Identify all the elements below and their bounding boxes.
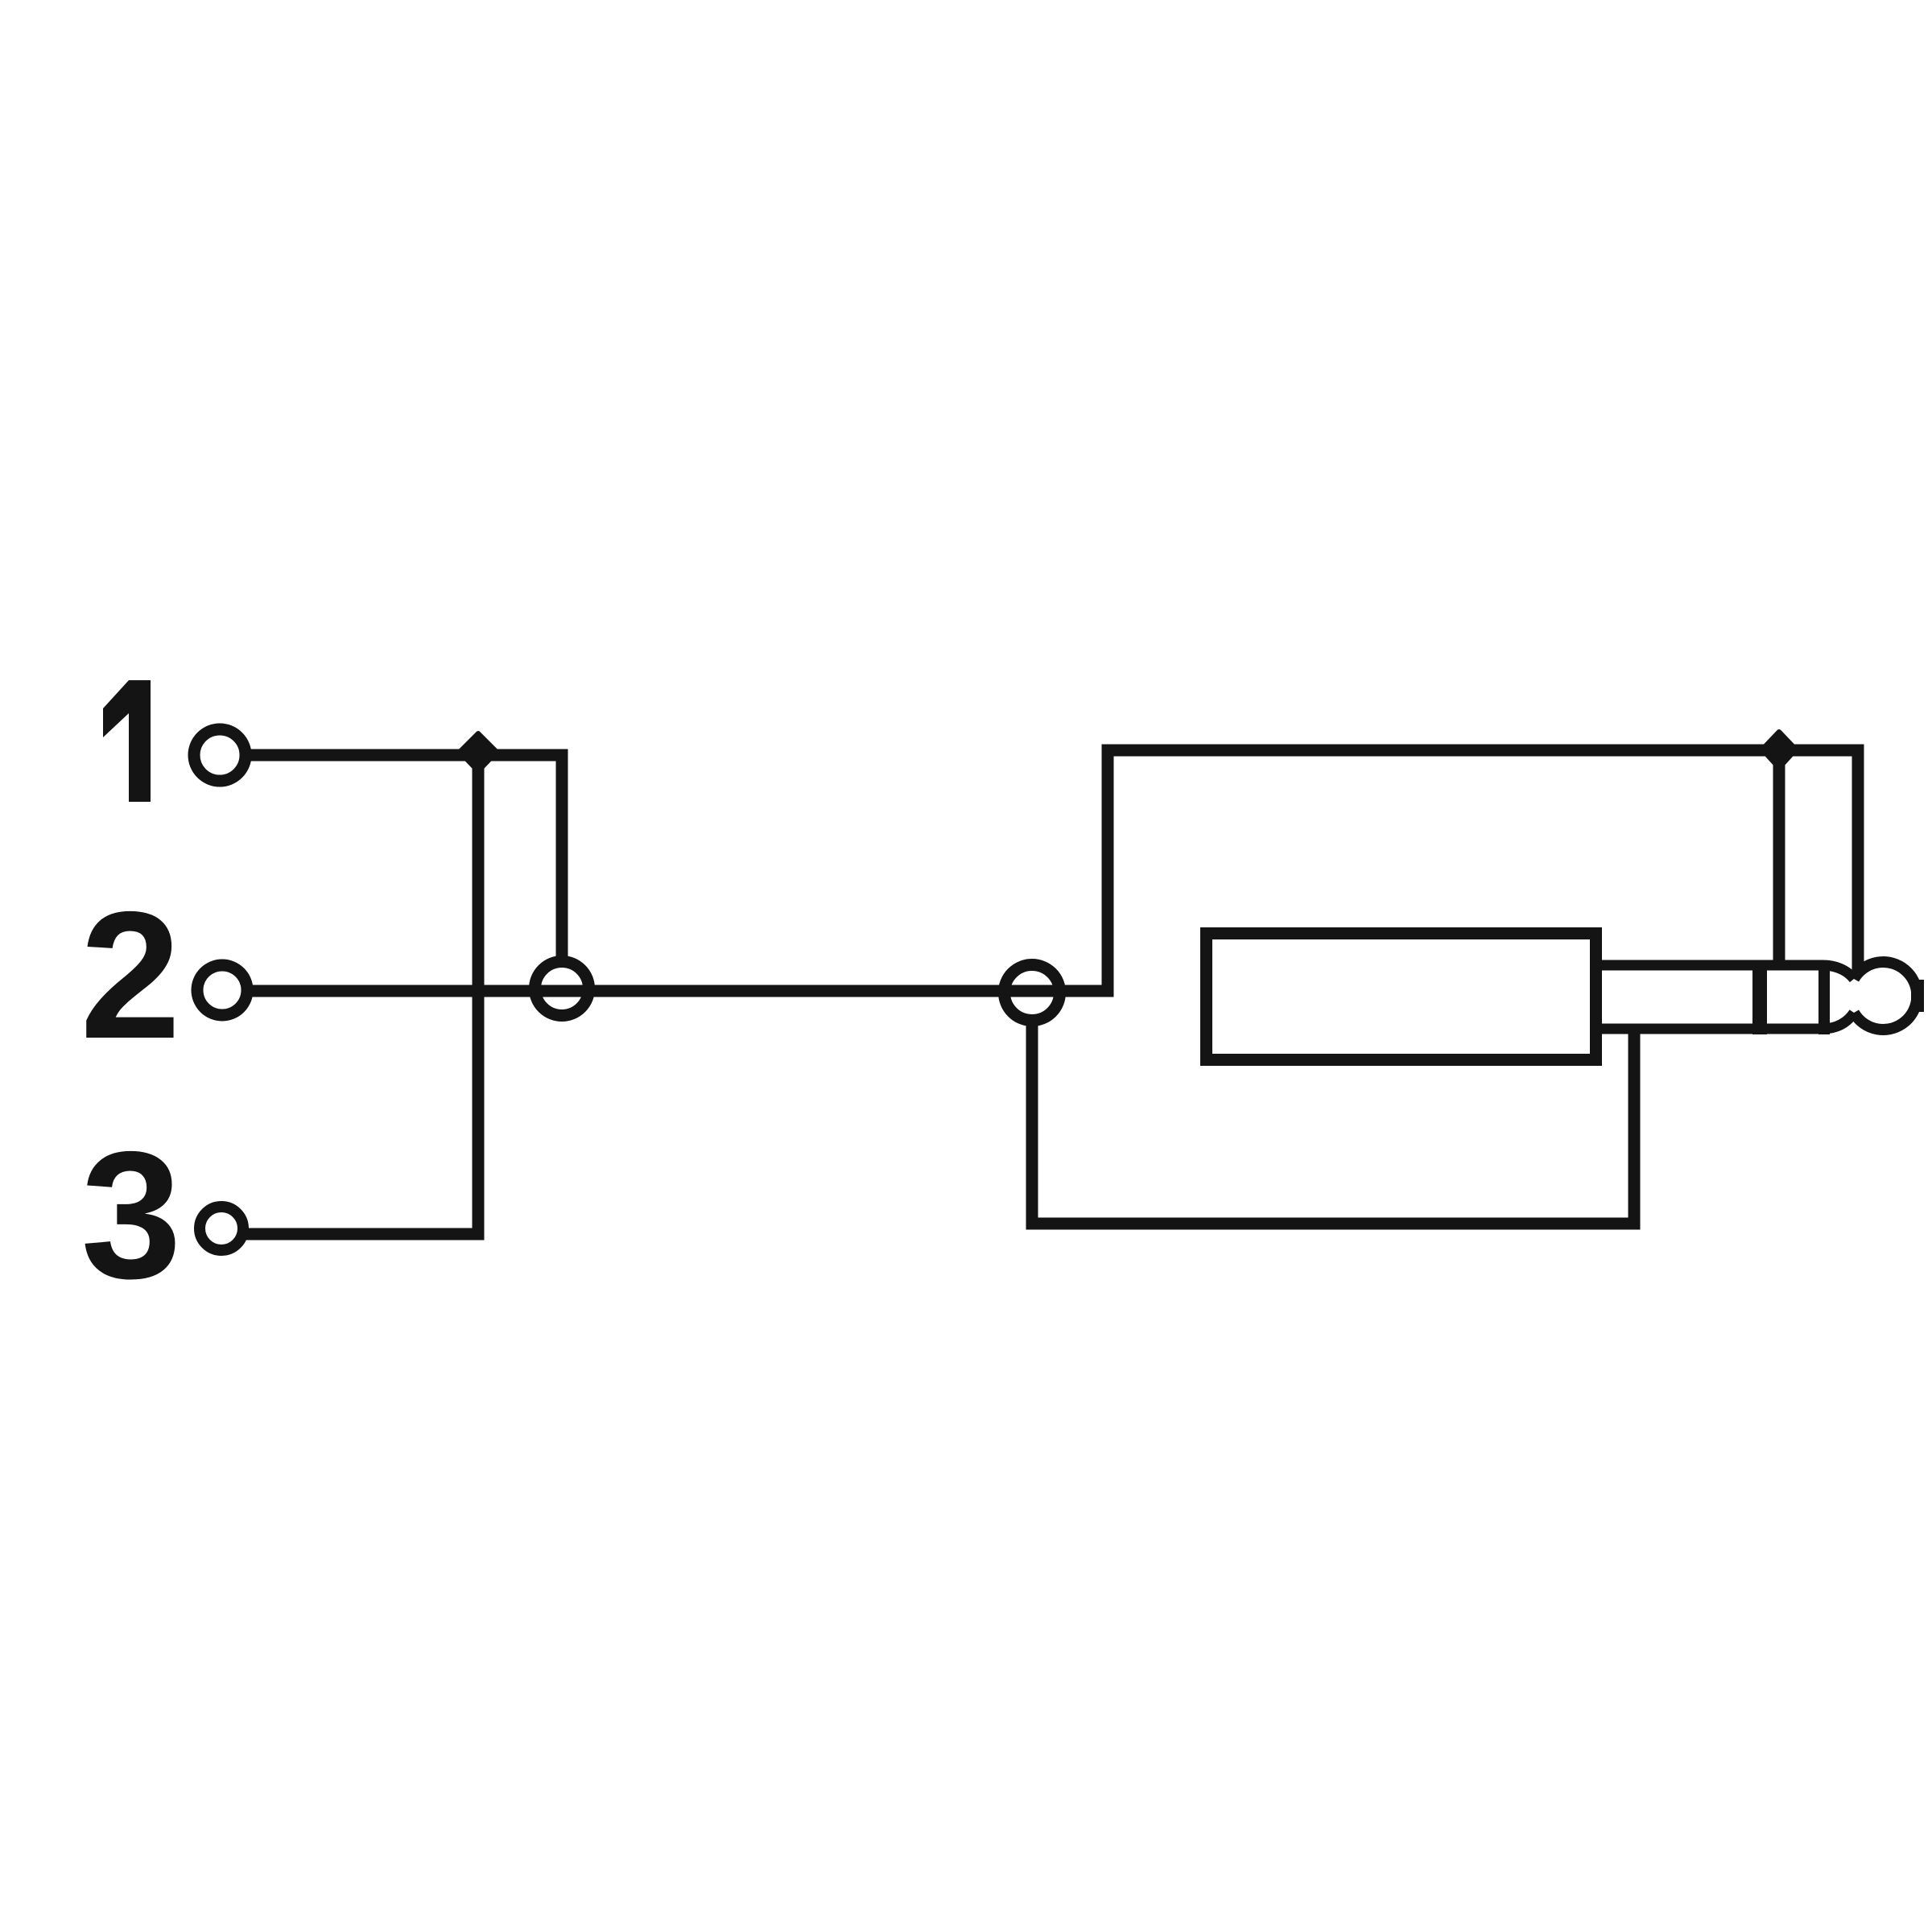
svg-text:3: 3 <box>80 1113 181 1316</box>
svg-text:2: 2 <box>80 873 180 1076</box>
